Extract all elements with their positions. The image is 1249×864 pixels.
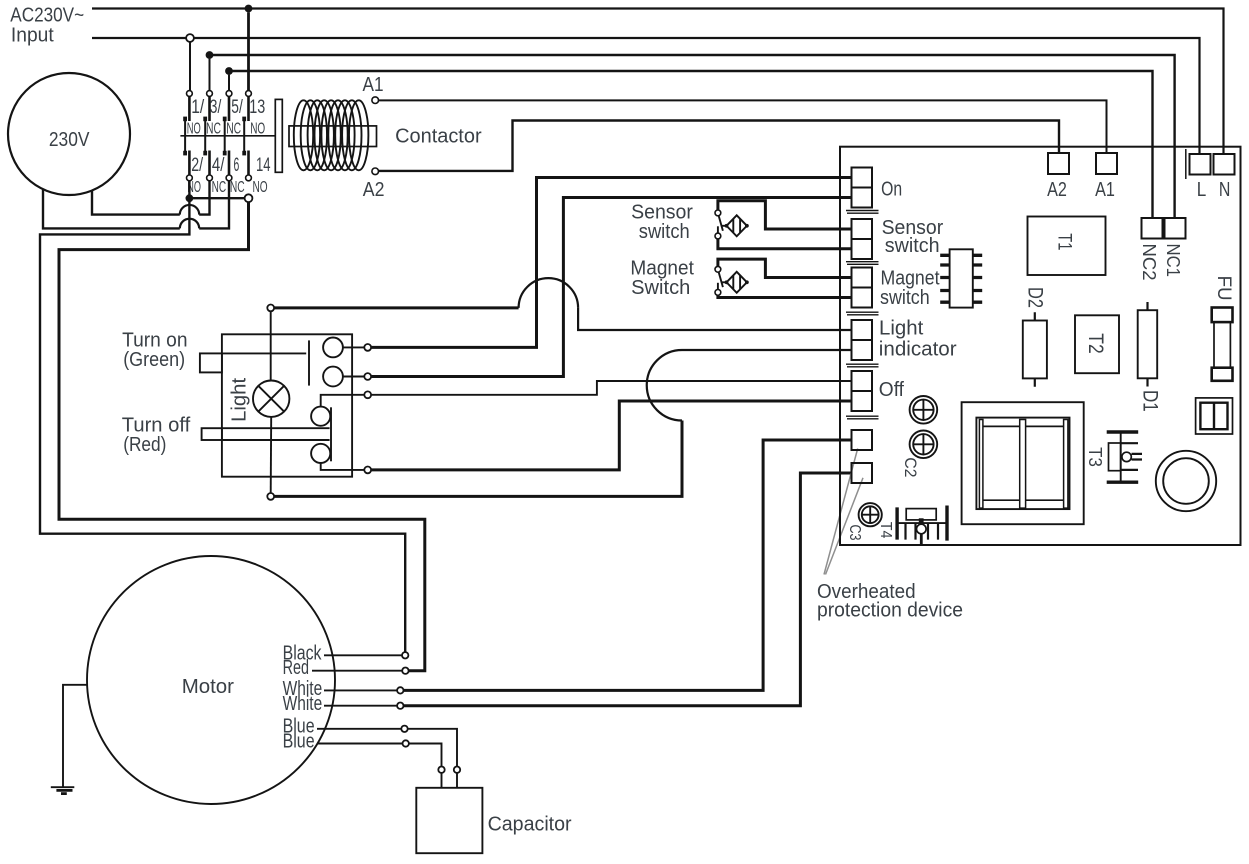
terminal square A1 <box>1096 153 1117 174</box>
terminal block Light indicator <box>852 320 873 360</box>
wire bus junction to contact 14 node <box>189 197 245 199</box>
capacitor C box <box>416 788 482 853</box>
svg-text:N: N <box>1219 179 1231 201</box>
svg-text:T3: T3 <box>1085 447 1105 467</box>
terminal square L <box>1190 154 1211 175</box>
svg-text:switch: switch <box>880 287 930 309</box>
tick mark left of L terminal <box>1185 149 1187 179</box>
terminal square A2 <box>1048 153 1069 174</box>
fuse FU body <box>1214 322 1230 368</box>
svg-text:Contactor: Contactor <box>395 126 482 148</box>
svg-text:D2: D2 <box>1024 287 1047 308</box>
terminal square NC1 <box>1165 218 1186 239</box>
magnet diamond right dot <box>745 280 749 284</box>
separator under Light <box>846 364 879 367</box>
wire AC line L2 to L terminal <box>92 38 1200 154</box>
label Sensor switch (PCB) <box>882 217 944 257</box>
node motor White1 terminal <box>397 687 403 693</box>
svg-text:NC2: NC2 <box>1139 244 1160 281</box>
sensor switch top terminal <box>715 210 721 216</box>
wire drop to contact 13 (thick) <box>247 12 250 90</box>
contact 13 poles <box>247 96 250 175</box>
sensor diamond inner lines <box>733 219 740 233</box>
svg-text:White: White <box>283 693 323 715</box>
svg-text:Red: Red <box>283 657 309 679</box>
wire 230V right lead to contact 4 (with hop over contact 2 wire) <box>92 181 210 215</box>
separator under Sensor <box>846 262 879 265</box>
svg-text:A1: A1 <box>1095 179 1115 201</box>
svg-text:4/: 4/ <box>212 155 225 176</box>
wire turn-on lower contact to terminal 2 <box>343 376 364 378</box>
wire lamp top to PCB Light indicator upper (with big hop) <box>274 306 518 309</box>
magnet switch S2 <box>715 259 852 297</box>
separator under On <box>846 211 879 214</box>
wire contact 2 junction to motor Black lead (long left run) <box>40 198 405 652</box>
wire terminal 2 to PCB On lower <box>371 198 852 377</box>
node open circle on L2 at contact 1 drop <box>186 34 194 42</box>
sensor switch S1 <box>715 201 852 249</box>
IC U1 DIP body <box>950 249 973 307</box>
wire line 3 to NC1 <box>210 55 1175 218</box>
wire turn-off lower contact to terminal 4 <box>321 463 365 470</box>
contact 13 bridge <box>242 117 246 156</box>
contact 3 bridge <box>203 117 207 156</box>
wire lamp top terminal into box <box>270 311 272 380</box>
svg-text:1/: 1/ <box>191 97 205 118</box>
svg-text:14: 14 <box>256 155 271 176</box>
switch box outline <box>222 334 352 476</box>
fuse FU bottom cap <box>1212 368 1233 381</box>
protection terminal square 2 <box>852 463 873 483</box>
motor circle <box>87 556 335 804</box>
terminal block Sensor switch <box>852 219 873 259</box>
svg-text:230V: 230V <box>49 128 90 151</box>
wire contact 2 down to junction <box>188 181 190 198</box>
svg-text:FU: FU <box>1213 276 1234 301</box>
T4 top tick <box>919 518 924 523</box>
magnet switch top wire to PCB <box>718 259 852 277</box>
terminal square N <box>1214 154 1235 175</box>
hop arc on 230V-contact6 wire <box>180 219 199 229</box>
node motor Black terminal <box>402 652 408 658</box>
node motor Red terminal <box>402 668 408 674</box>
wire contact 14 to motor Red lead (long left run, thick) <box>59 202 425 671</box>
wire A1 to PCB A1 terminal <box>379 100 1107 153</box>
svg-text:Blue: Blue <box>283 731 315 753</box>
sensor switch fixed stub <box>717 226 719 233</box>
transformer T2 box <box>1075 315 1119 373</box>
screw C2 upper <box>910 396 938 424</box>
wire capacitor left pin stub <box>441 773 443 788</box>
node switch terminal 3 <box>364 391 371 398</box>
wire lamp bottom lead <box>270 417 273 493</box>
turn-off button <box>202 428 222 440</box>
wire terminal 3 to PCB Off upper (with jog) <box>371 381 852 395</box>
svg-text:NO: NO <box>253 179 268 196</box>
wire capacitor right pin stub <box>456 773 458 788</box>
label Sensor switch (left) <box>631 201 693 243</box>
protection terminal square 1 <box>852 430 873 450</box>
svg-text:indicator: indicator <box>879 338 957 360</box>
sensor switch bottom terminal <box>715 233 721 239</box>
contactor coil core <box>289 126 377 147</box>
transformer T1 box <box>1028 217 1106 276</box>
svg-text:Switch: Switch <box>631 277 690 299</box>
node capacitor left pin circle <box>438 767 444 773</box>
svg-text:NO: NO <box>250 120 265 137</box>
T4 stem <box>920 534 923 544</box>
magnet diamond inner lines <box>733 276 740 290</box>
turn-on button <box>200 353 222 372</box>
wire terminal 4 to PCB Off lower <box>371 401 852 470</box>
svg-text:3/: 3/ <box>210 97 222 118</box>
turn-off contact circle lower <box>311 444 330 463</box>
svg-text:switch: switch <box>885 235 940 257</box>
turn-off actuator bar <box>330 407 332 461</box>
leader line to protection terminal 2 <box>826 478 864 575</box>
hop arc on 230V-contact4 wire <box>180 205 199 215</box>
terminal square NC2 <box>1142 218 1163 239</box>
node motor White2 terminal <box>397 703 403 709</box>
sensor switch bottom wire to PCB <box>718 239 852 249</box>
node switch terminal 2 <box>364 373 371 380</box>
wire motor Blue2 lead <box>317 743 403 745</box>
crystal T4 symbol <box>897 506 947 545</box>
crystal T3 symbol <box>1107 432 1142 482</box>
separator under Magnet <box>846 312 879 315</box>
contactor contact 3 top terminal <box>207 91 213 97</box>
turn-on contact circle lower <box>323 367 343 387</box>
wire terminal 1 to PCB On upper <box>371 178 852 348</box>
wire line 4 to NC2 <box>229 71 1153 218</box>
coil terminal A2 <box>372 168 379 175</box>
terminal block Off <box>852 371 873 411</box>
wire 230V left lead to contact 6 (with hop) <box>43 181 229 229</box>
fuse FU top cap <box>1212 308 1233 323</box>
magnet switch top terminal <box>715 266 721 272</box>
wire Blue2 to capacitor left pin <box>409 744 442 767</box>
node motor Blue2 terminal <box>403 740 409 746</box>
wire motor White2 lead <box>324 705 397 707</box>
contact 5 bridge <box>223 117 227 156</box>
turn-on contact circle upper <box>323 338 343 358</box>
source 230V circle <box>8 73 130 195</box>
svg-text:13: 13 <box>249 97 265 118</box>
label Light indicator <box>879 318 957 361</box>
turn-off contact circle upper <box>311 407 330 426</box>
wire riser top to PCB Light indicator lower <box>682 349 852 351</box>
contact 4 bottom terminal <box>207 175 213 181</box>
svg-text:Motor: Motor <box>182 675 234 698</box>
wire drop to contact 3 <box>209 59 211 91</box>
connector J1 outer <box>1196 398 1233 434</box>
wire terminal 3 to turn-off upper contact <box>321 395 365 407</box>
diode D1 body <box>1138 310 1158 378</box>
T4 legs <box>906 523 939 540</box>
wire A2 to PCB A2 terminal <box>379 121 1059 171</box>
hop arc on riser over Off wires <box>647 350 682 421</box>
transformer T5 inner box <box>976 418 1069 510</box>
ground symbol <box>51 787 75 793</box>
label Overheated protection device <box>817 581 963 622</box>
T3 legs <box>1121 443 1142 470</box>
svg-text:(Green): (Green) <box>123 349 185 371</box>
svg-text:NC: NC <box>226 120 241 137</box>
svg-text:Sensor: Sensor <box>631 201 693 223</box>
contact 5 poles <box>228 96 231 175</box>
sensor switch lever <box>719 216 723 231</box>
svg-text:AC230V~: AC230V~ <box>10 5 84 27</box>
svg-text:Light: Light <box>228 377 250 421</box>
sensor switch top wire to PCB <box>718 201 852 229</box>
node open circle under contact 14 <box>245 194 253 202</box>
svg-text:protection device: protection device <box>817 600 963 622</box>
coil terminal A1 <box>372 97 379 104</box>
contactor contact 13 top terminal <box>246 91 252 97</box>
wire lamp bottom to riser <box>274 421 682 497</box>
T3 end bars <box>1107 432 1139 482</box>
svg-text:(Red): (Red) <box>123 434 166 456</box>
turn-on button stem <box>222 352 306 354</box>
svg-text:NC: NC <box>212 179 227 196</box>
turn-on actuator bar <box>308 340 310 385</box>
T4 circle <box>917 524 927 534</box>
sensor diamond left dot <box>725 224 729 228</box>
transformer T5 winding horizontals <box>979 426 1068 500</box>
wire motor Blue1 lead <box>317 728 401 730</box>
svg-text:Magnet: Magnet <box>630 257 694 279</box>
svg-text:D1: D1 <box>1138 390 1161 412</box>
terminal block Magnet switch <box>852 268 873 308</box>
T4 end bars <box>897 506 947 541</box>
junction dot on L1 at contact 13 drop <box>245 5 253 13</box>
magnet switch bottom wire to PCB <box>718 295 852 297</box>
svg-text:L: L <box>1197 179 1207 201</box>
contact 1 poles <box>188 96 191 175</box>
wire hop landing to Light indicator upper terminal <box>578 308 852 330</box>
magnet diamond left dot <box>725 280 729 284</box>
label AC230V~ Input <box>10 5 84 47</box>
wire motor Black lead <box>324 654 402 656</box>
node switch terminal 4 <box>364 467 371 474</box>
diode D2 leads <box>1034 312 1036 387</box>
svg-text:Input: Input <box>11 24 54 46</box>
node lamp top terminal <box>267 305 274 312</box>
wire motor White1 lead <box>324 689 397 691</box>
svg-text:A2: A2 <box>363 179 385 201</box>
svg-text:Off: Off <box>879 379 905 401</box>
T4 top box <box>906 509 936 520</box>
wire AC line L1 (top) to N terminal <box>92 9 1224 155</box>
svg-text:NC: NC <box>230 179 245 196</box>
wire turn-on upper contact to terminal 1 <box>343 346 364 348</box>
svg-text:2/: 2/ <box>191 155 203 176</box>
sensor diamond right dot <box>745 224 749 228</box>
svg-text:switch: switch <box>639 221 690 243</box>
screw C2 lower <box>910 431 938 459</box>
magnet proximity diamond <box>727 272 747 293</box>
label Magnet Switch (left) <box>630 257 694 299</box>
wire drop to contact 5 <box>228 75 230 91</box>
svg-text:NO: NO <box>187 120 201 137</box>
svg-text:C3: C3 <box>846 525 863 541</box>
contactor contact 1 top terminal <box>187 91 193 97</box>
label Magnet switch (PCB) <box>880 268 940 310</box>
svg-text:T1: T1 <box>1053 233 1074 250</box>
svg-text:Capacitor: Capacitor <box>488 813 572 835</box>
node lamp bottom terminal <box>267 493 274 500</box>
diode D2 body <box>1023 321 1047 379</box>
transformer T5 outer box <box>962 402 1084 524</box>
T3 main line <box>1120 432 1122 482</box>
wire White2 to PCB protection terminal 2 <box>404 473 852 706</box>
junction dot start of line 3 <box>206 51 214 59</box>
svg-text:NC: NC <box>206 120 221 137</box>
magnet switch fixed stub <box>717 283 719 290</box>
svg-text:A1: A1 <box>363 74 384 96</box>
contact 14 bottom terminal <box>246 175 252 181</box>
magnet switch bottom terminal <box>715 290 721 296</box>
wire White1 to PCB protection terminal 1 <box>404 440 852 690</box>
svg-text:On: On <box>881 179 902 201</box>
terminal block On <box>852 168 873 208</box>
contact 6 bottom terminal <box>226 175 232 181</box>
hop arc over On wires <box>519 278 579 308</box>
svg-text:5/: 5/ <box>231 97 243 118</box>
transformer T5 core bars <box>979 420 1068 509</box>
contactor contact 5 top terminal <box>226 91 232 97</box>
magnet switch stub to diamond <box>722 281 727 283</box>
magnet switch lever <box>719 272 723 287</box>
turn-off button stem rails <box>222 428 330 440</box>
node switch terminal 1 <box>364 344 371 351</box>
T3 side box <box>1109 443 1121 471</box>
connector J1 inner cells <box>1200 403 1227 430</box>
sensor proximity diamond <box>727 215 747 236</box>
wire drop to contact 1 <box>189 42 191 91</box>
contact 1 bridge <box>183 117 187 156</box>
PCB board outline <box>840 147 1241 545</box>
wire Blue1 to capacitor right pin <box>408 729 457 767</box>
svg-text:C2: C2 <box>901 457 920 477</box>
svg-text:A2: A2 <box>1047 179 1067 201</box>
node capacitor right pin circle <box>454 767 460 773</box>
svg-text:NC1: NC1 <box>1163 244 1184 277</box>
separator under Off <box>846 416 879 419</box>
mechanical link line <box>180 135 275 137</box>
wire motor Red lead <box>312 670 402 672</box>
svg-text:T4: T4 <box>877 522 894 539</box>
sensor switch stub to diamond <box>722 225 727 227</box>
contactor coil winding <box>294 100 369 170</box>
svg-text:T2: T2 <box>1084 333 1107 353</box>
buzzer B1 <box>1156 451 1216 511</box>
contact 2 bottom terminal <box>187 175 193 181</box>
contactor separator bar <box>275 99 282 172</box>
screw C3 <box>859 503 882 526</box>
IC U1 pins <box>940 255 982 302</box>
leader line to protection terminal 1 <box>824 449 858 575</box>
svg-text:6: 6 <box>234 155 240 176</box>
diode D1 leads <box>1146 302 1148 387</box>
lamp L1 circle with cross <box>253 381 289 417</box>
node motor Blue1 terminal <box>401 726 407 732</box>
wire motor earth lead <box>63 685 87 787</box>
junction dot start of line 4 <box>225 67 233 75</box>
junction dot under contact 2 <box>186 194 194 202</box>
contact 3 poles <box>208 96 211 175</box>
T3 circle <box>1122 452 1131 461</box>
svg-text:Light: Light <box>879 318 924 340</box>
T4 main line <box>897 522 947 524</box>
